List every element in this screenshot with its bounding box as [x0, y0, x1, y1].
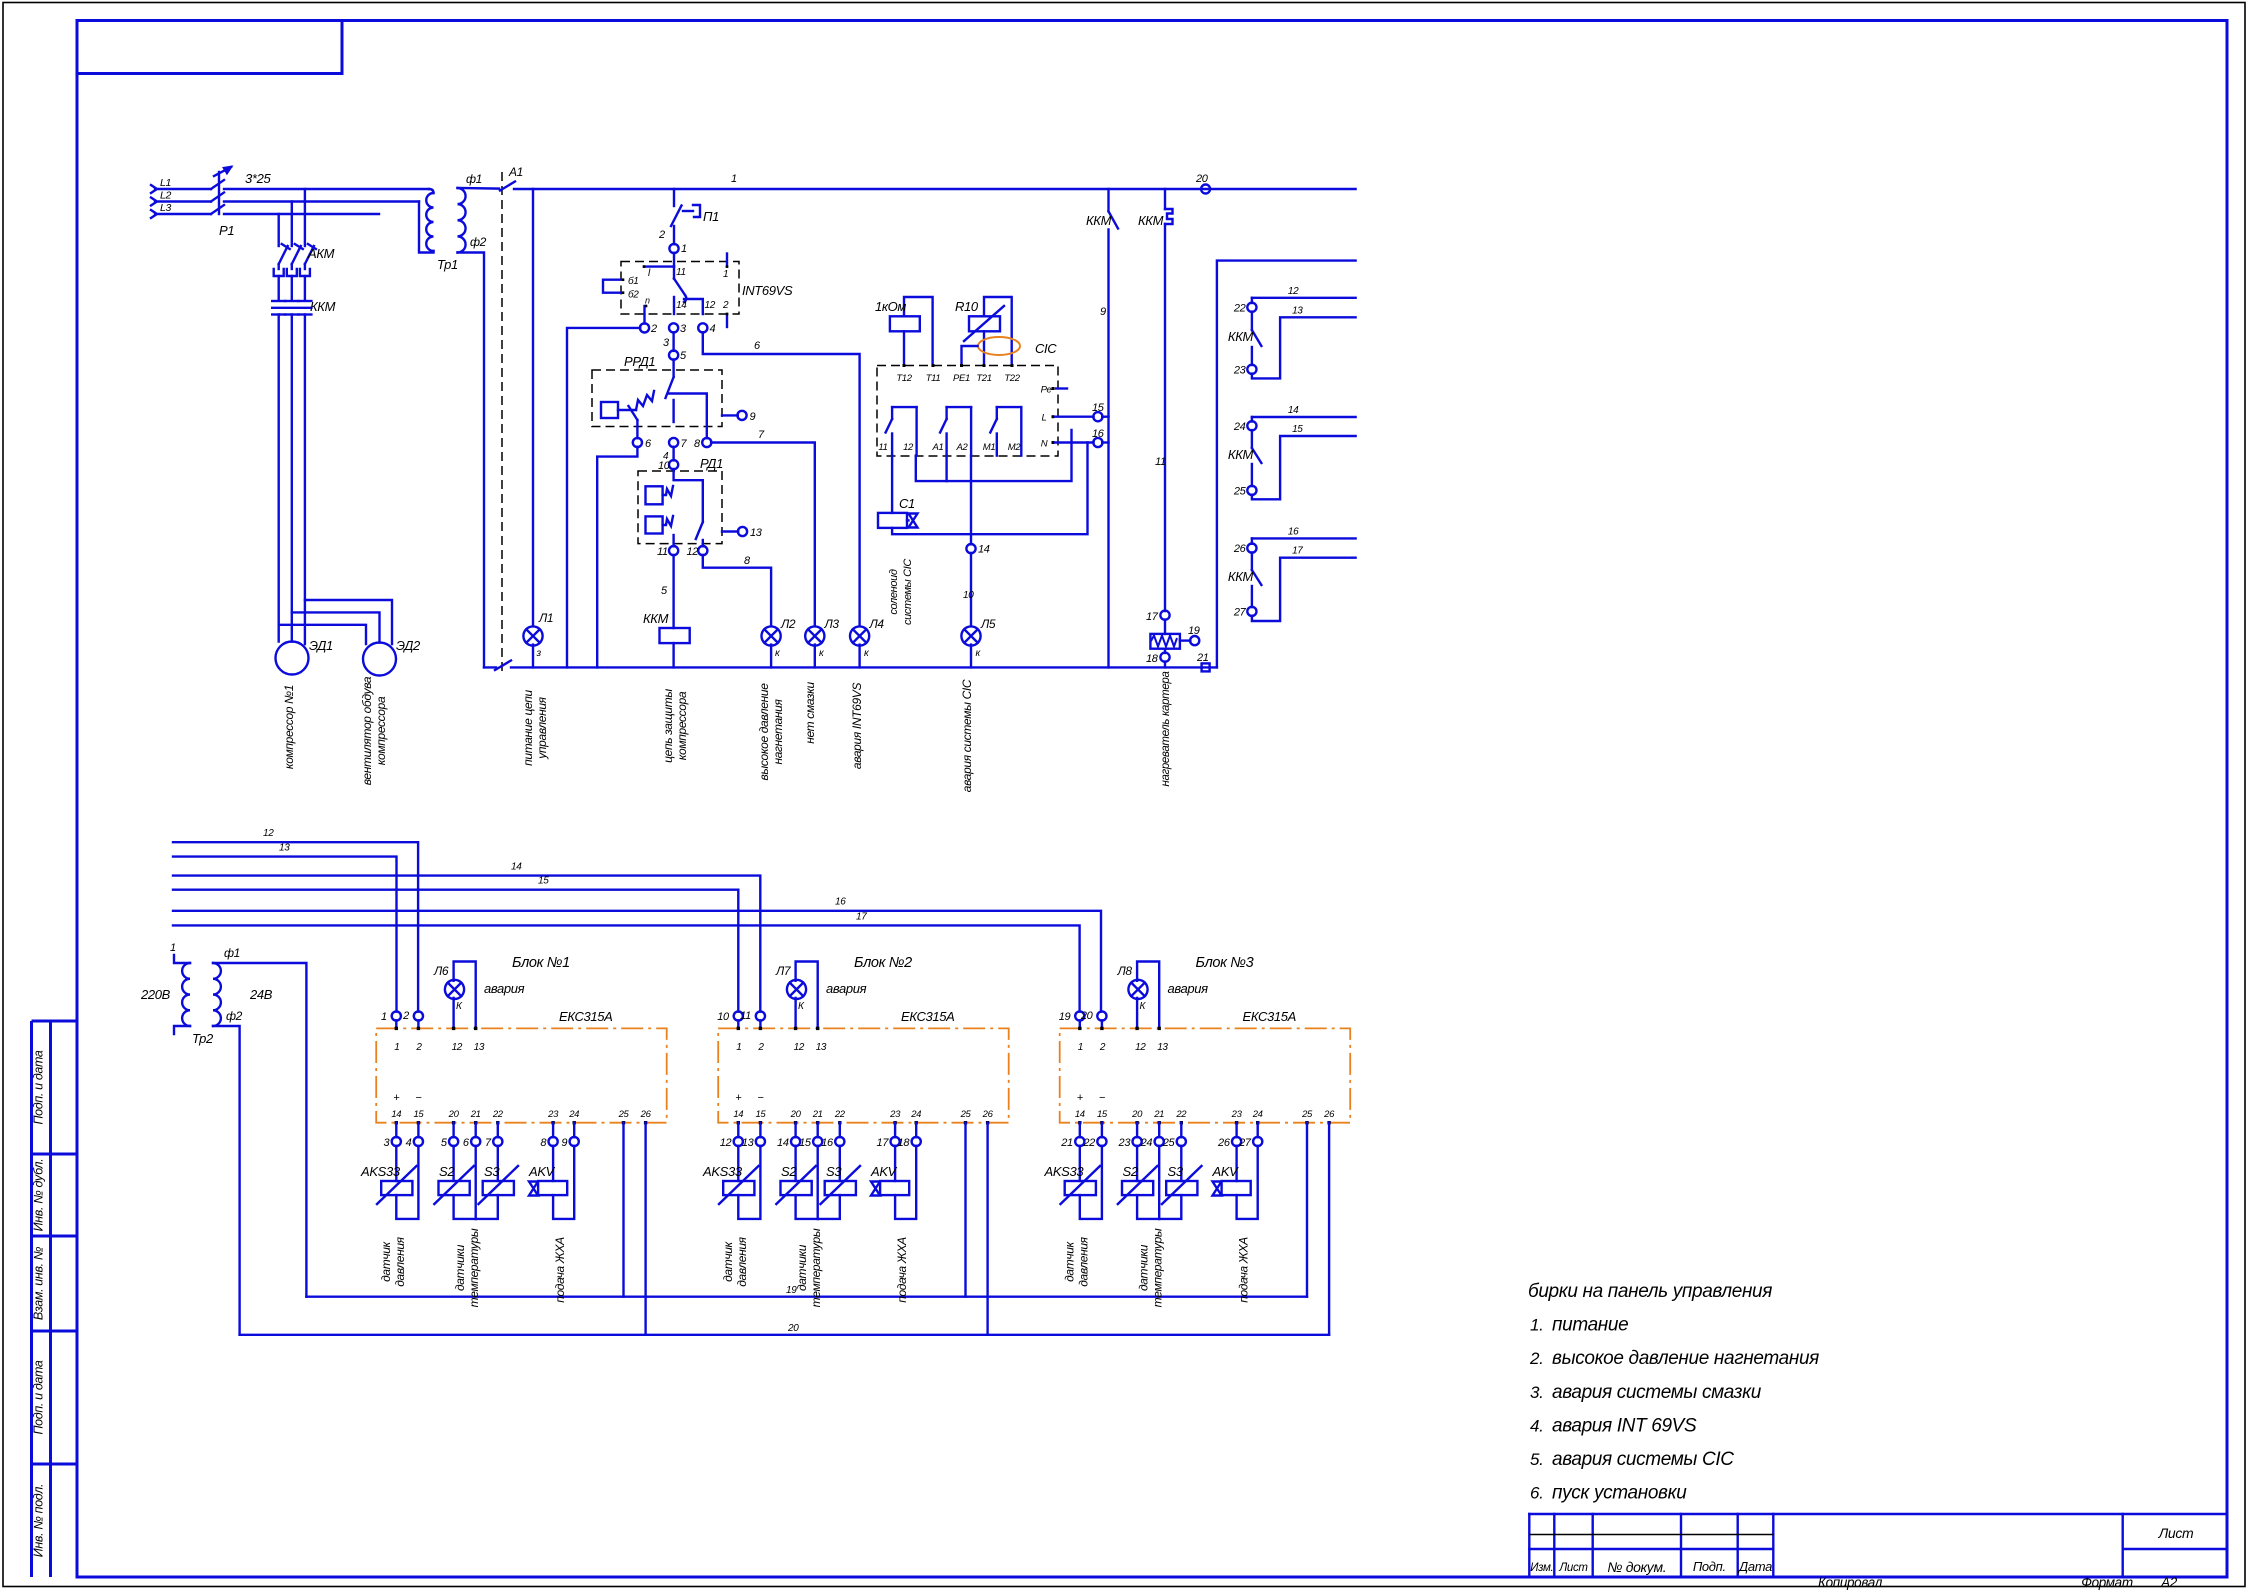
svg-text:ККМ: ККМ	[1228, 329, 1254, 344]
svg-text:7: 7	[485, 1137, 492, 1149]
svg-text:14: 14	[676, 300, 687, 311]
block 3 top terminal marks	[1078, 1027, 1081, 1030]
svg-text:Р1: Р1	[219, 223, 234, 238]
EKC315A box block 2	[718, 1028, 1009, 1122]
wire from terminal 2 to bus	[567, 328, 640, 668]
svg-text:1: 1	[170, 942, 176, 954]
svg-text:8: 8	[540, 1137, 547, 1149]
wire terminal 12 - A1 link	[916, 430, 1072, 481]
svg-text:11: 11	[878, 442, 887, 453]
svg-text:16: 16	[835, 897, 846, 908]
svg-text:Т22: Т22	[1004, 373, 1020, 384]
svg-text:Л1: Л1	[538, 611, 553, 625]
wire 3 to terminal 5	[672, 332, 674, 351]
svg-text:вентилятор обдува: вентилятор обдува	[360, 676, 374, 785]
svg-text:+: +	[393, 1092, 400, 1104]
svg-text:13: 13	[742, 1137, 755, 1149]
svg-text:Взам. инв. №: Взам. инв. №	[32, 1246, 46, 1320]
svg-text:23: 23	[1118, 1137, 1132, 1149]
svg-text:12: 12	[794, 1042, 805, 1053]
contact KKM NO top right	[1107, 189, 1109, 211]
svg-text:Дата: Дата	[1737, 1559, 1772, 1574]
pressure relay RD1 dashed box	[638, 471, 722, 544]
wire f1 from Tr1 secondary	[458, 187, 500, 190]
wire 6 from terminal 4 to lamp L4	[703, 332, 860, 627]
CIC terminal L wire to 15	[1052, 415, 1055, 418]
svg-text:давления: давления	[1077, 1236, 1091, 1286]
svg-text:15: 15	[755, 1109, 766, 1120]
svg-text:16: 16	[821, 1137, 834, 1149]
svg-text:2: 2	[722, 300, 729, 311]
svg-text:авария системы смазки: авария системы смазки	[1552, 1382, 1762, 1403]
svg-text:к: к	[864, 648, 870, 659]
svg-text:+: +	[735, 1092, 742, 1104]
wire 9-N vertical to bus	[1107, 229, 1109, 667]
svg-text:11: 11	[740, 1010, 751, 1022]
svg-text:температуры: температуры	[467, 1228, 481, 1307]
svg-text:Ре: Ре	[1041, 385, 1052, 396]
title block thin row line	[1529, 1534, 1773, 1536]
svg-text:4: 4	[710, 323, 716, 335]
svg-text:13: 13	[1157, 1042, 1168, 1053]
svg-text:высокое давление нагнетания: высокое давление нагнетания	[1552, 1348, 1819, 1369]
svg-text:S3: S3	[484, 1164, 500, 1179]
aux contact KKM 22-23	[1252, 298, 1356, 379]
RRD1 internals	[601, 359, 707, 438]
oil system CIC dashed box	[877, 366, 1058, 457]
svg-text:7: 7	[681, 438, 688, 450]
terminal circle 20	[1101, 1020, 1103, 1028]
svg-text:INT69VS: INT69VS	[742, 283, 793, 298]
svg-text:Лист: Лист	[2158, 1525, 2194, 1541]
svg-text:2.: 2.	[1529, 1349, 1543, 1368]
svg-text:19: 19	[1059, 1011, 1071, 1023]
svg-text:8: 8	[744, 555, 751, 567]
svg-text:13: 13	[816, 1042, 827, 1053]
svg-text:давления: давления	[735, 1236, 749, 1286]
svg-text:компрессора: компрессора	[675, 691, 689, 760]
svg-text:Л4: Л4	[869, 617, 885, 631]
title block frame	[1529, 1514, 2227, 1577]
svg-text:11: 11	[676, 267, 686, 278]
svg-text:Л2: Л2	[780, 617, 796, 631]
svg-text:9: 9	[1100, 306, 1106, 318]
svg-text:авария: авария	[484, 981, 525, 996]
svg-text:AKV: AKV	[1212, 1164, 1240, 1179]
wire 14 lamp L5 alarm CIC	[970, 456, 972, 545]
svg-text:220В: 220В	[140, 987, 171, 1002]
temperature sensor S3 block 3	[1159, 1146, 1201, 1219]
svg-text:27: 27	[1238, 1137, 1252, 1149]
svg-text:10: 10	[717, 1011, 730, 1023]
pressure relay RRD1 dashed box	[592, 370, 722, 427]
CIC terminal N wire to 16	[1052, 441, 1055, 444]
svg-text:ККМ: ККМ	[643, 611, 669, 626]
svg-text:17: 17	[856, 912, 867, 923]
pressure sensor AKS33 block 2	[719, 1146, 760, 1219]
svg-text:26: 26	[1217, 1137, 1231, 1149]
svg-text:к: к	[819, 648, 825, 659]
solenoid C1	[891, 456, 893, 513]
wire 8 from terminal 12 to lamp L2	[703, 555, 771, 628]
svg-text:l: l	[648, 268, 651, 279]
terminal circle 18	[1164, 649, 1166, 653]
svg-text:14: 14	[1075, 1109, 1085, 1120]
terminal circle 17	[1160, 611, 1169, 620]
svg-text:Лист: Лист	[1558, 1562, 1588, 1574]
transformer Tr2	[182, 963, 190, 1026]
svg-text:авария: авария	[826, 981, 867, 996]
motor ED1 compressor	[276, 642, 309, 675]
svg-text:S2: S2	[781, 1164, 797, 1179]
svg-text:датчик: датчик	[721, 1240, 735, 1281]
svg-text:ККМ: ККМ	[1086, 213, 1112, 228]
wire C1 to N	[892, 443, 1087, 535]
circuit breaker AKM	[274, 244, 316, 300]
terminal square 21 on bus	[1202, 663, 1210, 671]
svg-text:12: 12	[687, 546, 699, 558]
svg-text:13: 13	[1292, 305, 1303, 316]
svg-text:А1: А1	[932, 442, 944, 453]
wire f2 24V minus	[213, 1026, 240, 1335]
terminal circle 4	[698, 323, 707, 332]
EKC315A box block 1	[376, 1028, 667, 1122]
svg-text:РЕ1: РЕ1	[953, 373, 970, 384]
svg-text:б2: б2	[628, 289, 639, 301]
solenoid valve AKV block 3	[1213, 1146, 1258, 1219]
block 2 wire 26 to line 20	[986, 1123, 988, 1335]
svg-text:14: 14	[777, 1137, 789, 1149]
svg-text:25: 25	[618, 1109, 630, 1120]
svg-text:23: 23	[889, 1109, 901, 1120]
svg-text:А1: А1	[508, 165, 523, 179]
svg-text:подача ЖХА: подача ЖХА	[1237, 1237, 1251, 1303]
svg-text:РД1: РД1	[700, 456, 723, 471]
svg-text:Изм.: Изм.	[1530, 1562, 1553, 1574]
svg-text:15: 15	[1097, 1109, 1108, 1120]
feeder to aux contact groups	[1217, 261, 1356, 668]
svg-text:1: 1	[731, 173, 737, 185]
svg-text:3*25: 3*25	[245, 171, 271, 186]
transformer Tr1	[426, 193, 433, 251]
svg-text:25: 25	[960, 1109, 972, 1120]
svg-text:7: 7	[758, 429, 765, 441]
svg-text:5: 5	[661, 585, 668, 597]
svg-text:4.: 4.	[1530, 1416, 1543, 1435]
contactor main contacts KKM	[272, 301, 311, 315]
svg-text:к: к	[775, 648, 781, 659]
svg-text:Инв. № дубл.: Инв. № дубл.	[32, 1159, 46, 1232]
svg-text:ЭД1: ЭД1	[309, 638, 333, 653]
svg-text:15: 15	[413, 1109, 424, 1120]
block 3 wire 26 to line 20	[1328, 1123, 1330, 1335]
svg-text:15: 15	[1092, 402, 1105, 414]
svg-text:1.: 1.	[1530, 1316, 1543, 1335]
terminal circle 3	[669, 323, 678, 332]
block 3 wire 25 to line 19	[1306, 1123, 1308, 1297]
svg-text:5: 5	[680, 350, 687, 362]
svg-text:20: 20	[1131, 1109, 1143, 1120]
svg-text:1кОм: 1кОм	[875, 299, 906, 314]
contactor coil KKM	[660, 628, 690, 643]
svg-text:авария INT 69VS: авария INT 69VS	[1552, 1415, 1697, 1436]
svg-text:18: 18	[898, 1137, 911, 1149]
svg-text:Подп. и дата: Подп. и дата	[32, 1360, 46, 1434]
svg-text:з: з	[536, 648, 542, 659]
incoming supply lines L1 L2 L3	[151, 185, 211, 193]
svg-text:12: 12	[263, 828, 274, 839]
svg-text:М2: М2	[1008, 442, 1022, 453]
svg-text:Тр2: Тр2	[192, 1031, 214, 1046]
terminal circle 10	[669, 460, 678, 469]
svg-text:AKV: AKV	[528, 1164, 556, 1179]
motor ED2 fan	[363, 643, 396, 676]
svg-text:Подп. и дата: Подп. и дата	[32, 1050, 46, 1124]
block 3 sensor terminals	[1079, 1123, 1081, 1138]
svg-text:6.: 6.	[1530, 1484, 1543, 1503]
svg-text:давления: давления	[393, 1236, 407, 1286]
terminal circle 11	[669, 546, 678, 555]
svg-text:12: 12	[705, 300, 716, 311]
CIC terminal Pe	[1052, 387, 1055, 390]
left column frame	[32, 1021, 78, 1577]
svg-text:6: 6	[463, 1137, 470, 1149]
svg-text:б1: б1	[628, 275, 639, 287]
aux contact KKM 24-25	[1252, 417, 1356, 499]
svg-text:13: 13	[474, 1042, 485, 1053]
long wire 12	[173, 842, 418, 1012]
svg-text:N: N	[1041, 439, 1048, 450]
svg-text:к: к	[976, 648, 982, 659]
svg-text:CIC: CIC	[1035, 341, 1057, 356]
supply line 19	[306, 1295, 1307, 1297]
svg-text:20: 20	[787, 1323, 799, 1334]
svg-text:2: 2	[1099, 1042, 1106, 1053]
svg-text:26: 26	[1233, 543, 1247, 555]
svg-text:А2: А2	[956, 442, 969, 453]
wire f1 24V plus	[213, 963, 306, 1297]
svg-text:S2: S2	[439, 1164, 455, 1179]
svg-text:нет смазки: нет смазки	[803, 682, 817, 744]
svg-text:А2: А2	[2160, 1575, 2178, 1590]
svg-text:24: 24	[1233, 421, 1246, 433]
svg-text:5: 5	[441, 1137, 448, 1149]
svg-text:10: 10	[963, 590, 974, 601]
svg-text:12: 12	[1288, 286, 1299, 297]
svg-text:Л3: Л3	[824, 617, 840, 631]
terminal circle 9	[722, 414, 738, 416]
PE1 ground link	[962, 346, 978, 366]
svg-text:8: 8	[694, 438, 701, 450]
thermal contact KKM	[1164, 189, 1166, 209]
svg-text:22: 22	[1175, 1109, 1187, 1120]
svg-text:питание цепи: питание цепи	[521, 689, 535, 765]
svg-text:Т11: Т11	[926, 373, 941, 384]
svg-text:2: 2	[402, 1010, 409, 1022]
svg-text:21: 21	[1196, 652, 1209, 664]
svg-text:17: 17	[1146, 611, 1159, 623]
disconnect switch P1	[211, 167, 231, 214]
solenoid valve AKV block 1	[529, 1146, 574, 1219]
svg-text:1: 1	[736, 1042, 741, 1053]
block 1 wire 26 to line 20	[644, 1123, 646, 1335]
svg-text:26: 26	[1323, 1109, 1335, 1120]
alarm lamp Л6	[445, 980, 464, 999]
terminal circle 2	[417, 1020, 419, 1028]
svg-text:Л8: Л8	[1117, 964, 1133, 978]
svg-text:Л6: Л6	[433, 964, 449, 978]
top-left stamp box	[77, 21, 342, 74]
relay INT69VS dashed box	[621, 262, 739, 315]
svg-text:3: 3	[680, 323, 687, 335]
svg-text:температуры: температуры	[809, 1228, 823, 1307]
crankcase heater	[1164, 620, 1166, 634]
svg-text:17: 17	[877, 1137, 890, 1149]
svg-text:S2: S2	[1123, 1164, 1139, 1179]
svg-text:12: 12	[452, 1042, 463, 1053]
svg-text:системы CIC: системы CIC	[902, 559, 914, 625]
svg-text:AKS33: AKS33	[1044, 1164, 1085, 1179]
svg-text:21: 21	[812, 1109, 823, 1120]
wires after P1	[224, 188, 429, 190]
block 1 top terminal marks	[395, 1027, 398, 1030]
svg-text:Л7: Л7	[775, 964, 792, 978]
terminal circle 10	[737, 1020, 739, 1028]
svg-text:ЕКС315А: ЕКС315А	[559, 1009, 613, 1024]
svg-text:3.: 3.	[1530, 1383, 1543, 1402]
svg-text:21: 21	[1153, 1109, 1164, 1120]
svg-text:12: 12	[1135, 1042, 1146, 1053]
svg-text:L1: L1	[160, 177, 171, 189]
svg-text:бирки на панель управления: бирки на панель управления	[1528, 1281, 1772, 1302]
svg-text:15: 15	[1292, 424, 1303, 435]
long wire 16	[173, 911, 1101, 1012]
svg-text:12: 12	[903, 442, 914, 453]
svg-text:25: 25	[1233, 485, 1247, 497]
wire f2 from Tr1 secondary	[458, 253, 485, 668]
switch blade A1 top	[500, 182, 515, 191]
svg-text:температуры: температуры	[1151, 1228, 1165, 1307]
block 2 sensor terminals	[737, 1123, 739, 1138]
wire 4 to terminal 10	[672, 447, 674, 461]
svg-text:управления: управления	[535, 696, 549, 759]
pressure sensor AKS33 block 1	[377, 1146, 418, 1219]
lamp L1 power-on column	[532, 189, 534, 627]
svg-text:25: 25	[1301, 1109, 1313, 1120]
switch blade A1 bottom	[495, 661, 511, 671]
svg-text:25: 25	[1162, 1137, 1176, 1149]
temperature sensor S3 block 1	[476, 1146, 518, 1219]
svg-text:Блок №2: Блок №2	[854, 955, 912, 971]
svg-text:ф1: ф1	[466, 172, 482, 186]
block 3 bottom terminal marks	[1078, 1121, 1081, 1124]
resistor 1kOm	[890, 297, 933, 366]
svg-text:авария INT69VS: авария INT69VS	[850, 683, 864, 770]
svg-text:РРД1: РРД1	[624, 354, 655, 369]
cabinet boundary A1 dashed line	[501, 172, 503, 674]
svg-text:ЭД2: ЭД2	[396, 638, 421, 653]
svg-text:11: 11	[657, 546, 668, 558]
svg-text:13: 13	[750, 527, 763, 539]
svg-text:AKS33: AKS33	[360, 1164, 401, 1179]
svg-text:9: 9	[561, 1137, 567, 1149]
svg-text:Копировал: Копировал	[1818, 1575, 1883, 1590]
svg-text:нагреватель картера: нагреватель картера	[1160, 672, 1172, 787]
temperature sensor S2 block 1	[434, 1146, 475, 1219]
svg-text:ф1: ф1	[224, 946, 240, 960]
svg-text:П1: П1	[703, 209, 719, 224]
block 1 sensor terminals	[395, 1123, 397, 1138]
svg-text:14: 14	[511, 862, 522, 873]
svg-text:нагнетания: нагнетания	[771, 699, 785, 765]
svg-text:2: 2	[757, 1042, 764, 1053]
svg-text:Л5: Л5	[980, 617, 996, 631]
svg-text:15: 15	[799, 1137, 812, 1149]
svg-text:−: −	[1099, 1092, 1106, 1104]
svg-text:датчик: датчик	[379, 1240, 393, 1281]
svg-text:20: 20	[1195, 173, 1209, 185]
svg-text:n: n	[645, 296, 650, 306]
supply line 20	[240, 1334, 1330, 1336]
svg-text:1: 1	[381, 1011, 387, 1023]
svg-text:авария: авария	[1168, 981, 1209, 996]
svg-text:К: К	[456, 1001, 463, 1012]
svg-text:1: 1	[394, 1042, 399, 1053]
svg-text:4: 4	[406, 1137, 412, 1149]
CIC top terminal labels	[903, 364, 906, 367]
svg-text:соленоид: соленоид	[888, 569, 900, 615]
terminal circle 2	[640, 323, 649, 332]
svg-text:20: 20	[790, 1109, 802, 1120]
svg-text:датчик: датчик	[1063, 1240, 1077, 1281]
solenoid valve AKV block 2	[871, 1146, 916, 1219]
svg-text:Формат: Формат	[2081, 1575, 2133, 1590]
svg-text:10: 10	[658, 460, 671, 472]
alarm lamp Л7	[787, 980, 806, 999]
motor feeder wires	[279, 315, 392, 645]
svg-text:27: 27	[1233, 606, 1247, 618]
aux contact KKM 26-27	[1252, 538, 1356, 621]
svg-text:20: 20	[448, 1109, 460, 1120]
svg-text:24: 24	[1140, 1137, 1153, 1149]
svg-text:3: 3	[384, 1137, 391, 1149]
svg-text:24: 24	[568, 1109, 579, 1120]
lamp L2 high discharge pressure	[762, 626, 781, 645]
pressure sensor AKS33 block 3	[1061, 1146, 1102, 1219]
svg-text:№ докум.: № докум.	[1607, 1559, 1666, 1575]
wire from terminal 6 to bus	[597, 447, 637, 668]
svg-text:Тр1: Тр1	[437, 257, 458, 272]
svg-text:2: 2	[650, 323, 657, 335]
svg-text:ф2: ф2	[226, 1009, 243, 1023]
svg-text:24В: 24В	[249, 987, 273, 1002]
svg-text:26: 26	[640, 1109, 652, 1120]
long wire 14	[173, 876, 760, 1012]
CIC internal contacts	[886, 407, 1022, 456]
alarm lamp Л8	[1128, 980, 1147, 999]
svg-text:14: 14	[1288, 405, 1299, 416]
svg-text:22: 22	[834, 1109, 846, 1120]
svg-text:18: 18	[1146, 653, 1159, 665]
svg-text:1: 1	[723, 269, 728, 280]
svg-text:12: 12	[720, 1137, 732, 1149]
svg-text:ККМ: ККМ	[1228, 569, 1254, 584]
svg-text:6: 6	[645, 438, 652, 450]
terminal circle 1	[669, 244, 678, 253]
svg-text:+: +	[1077, 1092, 1084, 1104]
svg-text:21: 21	[1060, 1137, 1073, 1149]
svg-text:С1: С1	[899, 496, 915, 511]
